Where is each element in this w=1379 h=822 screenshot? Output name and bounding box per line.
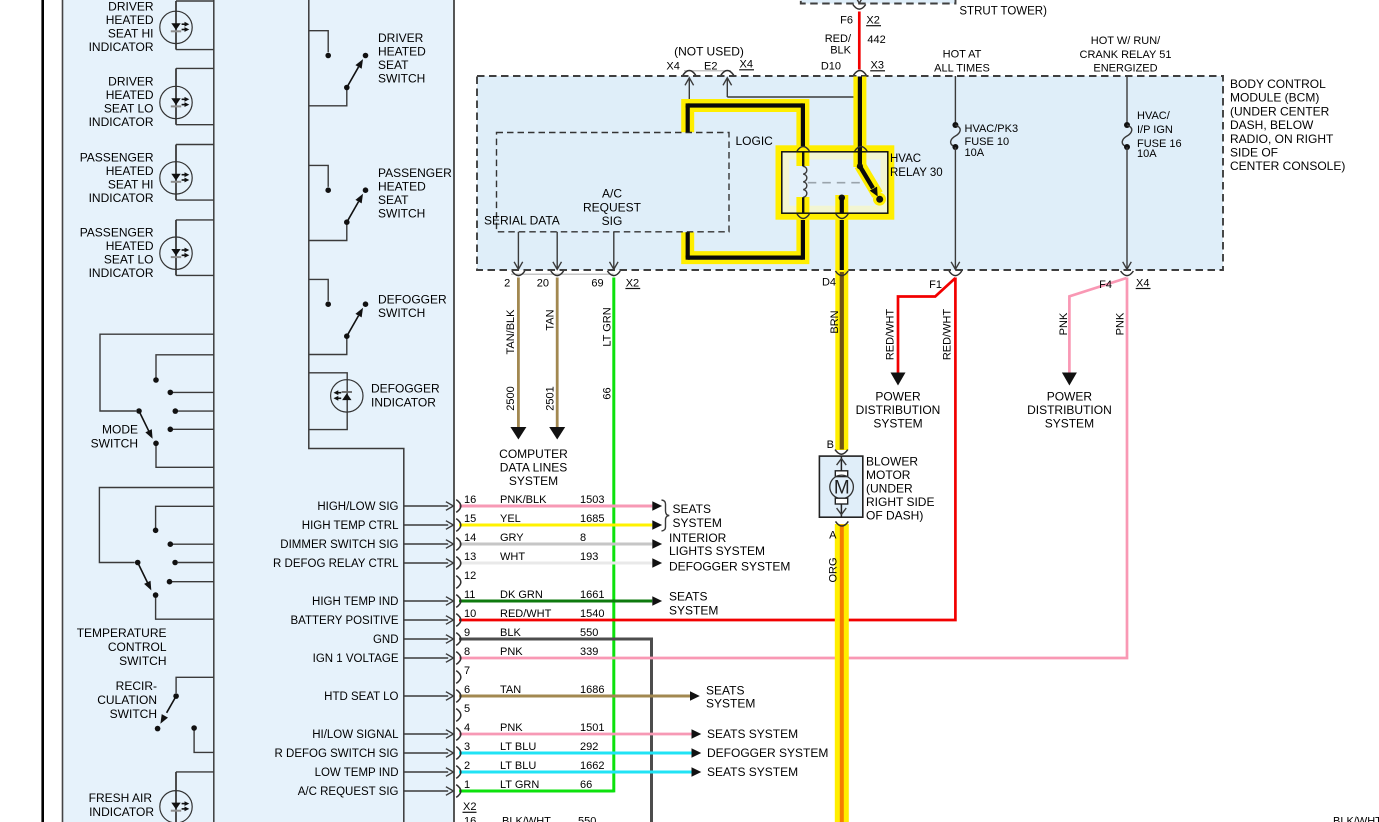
svg-text:DISTRIBUTION: DISTRIBUTION [1027, 403, 1112, 417]
svg-text:DRIVER: DRIVER [108, 75, 154, 89]
svg-text:7: 7 [464, 665, 470, 677]
svg-text:2: 2 [464, 760, 470, 772]
svg-text:16: 16 [464, 494, 476, 506]
svg-text:X2: X2 [866, 15, 879, 27]
svg-text:INDICATOR: INDICATOR [89, 805, 154, 819]
svg-text:HEATED: HEATED [378, 179, 426, 193]
svg-text:PNK/BLK: PNK/BLK [500, 494, 547, 506]
svg-text:SYSTEM: SYSTEM [873, 417, 922, 431]
svg-text:20: 20 [537, 277, 549, 289]
svg-text:DRIVER: DRIVER [108, 0, 154, 14]
svg-text:BODY CONTROL: BODY CONTROL [1230, 77, 1326, 91]
svg-text:D4: D4 [822, 277, 836, 289]
svg-text:INDICATOR: INDICATOR [89, 40, 154, 54]
svg-text:SEAT HI: SEAT HI [108, 27, 154, 41]
svg-text:550: 550 [578, 816, 596, 822]
svg-text:HVAC: HVAC [890, 153, 921, 165]
svg-text:SEAT LO: SEAT LO [104, 102, 154, 116]
svg-text:BLK: BLK [500, 627, 521, 639]
svg-text:A/C REQUEST SIG: A/C REQUEST SIG [298, 786, 399, 798]
svg-text:339: 339 [580, 646, 598, 658]
svg-text:PNK: PNK [1058, 312, 1070, 335]
svg-text:RED/: RED/ [825, 33, 852, 45]
svg-text:SEAT: SEAT [378, 58, 409, 72]
svg-text:SYSTEM: SYSTEM [669, 604, 718, 618]
svg-text:(NOT USED): (NOT USED) [674, 44, 744, 58]
svg-text:E2: E2 [704, 61, 717, 73]
svg-text:CRANK RELAY 51: CRANK RELAY 51 [1080, 49, 1172, 61]
svg-text:HEATED: HEATED [106, 88, 154, 102]
svg-text:69: 69 [591, 277, 603, 289]
svg-text:SWITCH: SWITCH [119, 654, 166, 668]
svg-text:LIGHTS SYSTEM: LIGHTS SYSTEM [669, 544, 765, 558]
svg-text:INDICATOR: INDICATOR [89, 115, 154, 129]
svg-text:PASSENGER: PASSENGER [80, 151, 154, 165]
svg-text:R DEFOG RELAY CTRL: R DEFOG RELAY CTRL [273, 558, 399, 570]
svg-text:RADIO, ON RIGHT: RADIO, ON RIGHT [1230, 132, 1334, 146]
svg-text:STRUT TOWER): STRUT TOWER) [959, 6, 1047, 18]
svg-text:HOT AT: HOT AT [943, 49, 982, 61]
svg-text:BLK: BLK [830, 44, 851, 56]
svg-text:9: 9 [464, 627, 470, 639]
svg-text:POWER: POWER [875, 390, 921, 404]
svg-text:1501: 1501 [580, 722, 604, 734]
svg-text:X2: X2 [626, 277, 639, 289]
svg-text:D10: D10 [821, 61, 841, 73]
svg-text:HIGH TEMP IND: HIGH TEMP IND [312, 596, 398, 608]
svg-text:REQUEST: REQUEST [583, 200, 642, 214]
svg-text:DRIVER: DRIVER [378, 31, 424, 45]
svg-text:GRY: GRY [500, 532, 524, 544]
svg-text:INDICATOR: INDICATOR [89, 266, 154, 280]
svg-text:IGN 1 VOLTAGE: IGN 1 VOLTAGE [313, 653, 399, 665]
svg-text:FRESH AIR: FRESH AIR [89, 791, 153, 805]
svg-text:RED/WHT: RED/WHT [885, 309, 897, 361]
svg-text:TAN/BLK: TAN/BLK [505, 309, 517, 355]
svg-text:HEATED: HEATED [106, 164, 154, 178]
svg-text:B: B [827, 439, 834, 451]
svg-text:DIMMER SWITCH SIG: DIMMER SWITCH SIG [280, 539, 398, 551]
svg-text:2500: 2500 [505, 386, 517, 410]
svg-text:X4: X4 [666, 61, 679, 73]
svg-text:OF DASH): OF DASH) [866, 509, 923, 523]
svg-text:HIGH/LOW SIG: HIGH/LOW SIG [317, 501, 398, 513]
svg-text:66: 66 [601, 387, 613, 399]
svg-text:LT BLU: LT BLU [500, 741, 536, 753]
svg-text:MODE: MODE [102, 423, 138, 437]
svg-text:X3: X3 [871, 60, 884, 72]
svg-text:RECIR-: RECIR- [116, 679, 157, 693]
svg-text:HVAC/PK3: HVAC/PK3 [965, 123, 1019, 135]
svg-text:LOW TEMP IND: LOW TEMP IND [315, 767, 399, 779]
svg-text:MODULE (BCM): MODULE (BCM) [1230, 91, 1319, 105]
svg-text:POWER: POWER [1047, 390, 1093, 404]
svg-text:10A: 10A [1137, 148, 1157, 160]
svg-text:SEAT HI: SEAT HI [108, 178, 154, 192]
svg-text:CENTER CONSOLE): CENTER CONSOLE) [1230, 159, 1345, 173]
svg-text:SYSTEM: SYSTEM [509, 474, 558, 488]
svg-text:SEATS SYSTEM: SEATS SYSTEM [707, 727, 798, 741]
svg-text:SYSTEM: SYSTEM [706, 697, 755, 711]
svg-text:HTD SEAT LO: HTD SEAT LO [324, 691, 398, 703]
svg-text:292: 292 [580, 741, 598, 753]
svg-text:BLK/WHT: BLK/WHT [502, 816, 551, 822]
svg-text:SEATS SYSTEM: SEATS SYSTEM [707, 765, 798, 779]
svg-text:TEMPERATURE: TEMPERATURE [77, 626, 167, 640]
svg-text:CONTROL: CONTROL [108, 640, 167, 654]
svg-text:LT GRN: LT GRN [601, 307, 613, 346]
svg-text:HI/LOW SIGNAL: HI/LOW SIGNAL [312, 729, 399, 741]
svg-text:2: 2 [504, 277, 510, 289]
svg-text:5: 5 [464, 703, 470, 715]
svg-text:SWITCH: SWITCH [378, 306, 425, 320]
svg-text:SYSTEM: SYSTEM [1045, 417, 1094, 431]
svg-text:1: 1 [464, 779, 470, 791]
svg-text:SEATS: SEATS [673, 502, 711, 516]
svg-text:INTERIOR: INTERIOR [669, 531, 727, 545]
svg-text:SWITCH: SWITCH [378, 72, 425, 86]
svg-text:1662: 1662 [580, 760, 604, 772]
svg-text:SIDE OF: SIDE OF [1230, 146, 1278, 160]
svg-text:SWITCH: SWITCH [91, 437, 138, 451]
svg-text:LT BLU: LT BLU [500, 760, 536, 772]
svg-text:DEFOGGER: DEFOGGER [378, 293, 447, 307]
svg-text:A: A [829, 530, 837, 542]
svg-text:(UNDER: (UNDER [866, 482, 913, 496]
svg-text:PASSENGER: PASSENGER [80, 226, 154, 240]
svg-text:12: 12 [464, 570, 476, 582]
svg-text:A/C: A/C [602, 187, 622, 201]
svg-text:HVAC/: HVAC/ [1137, 110, 1171, 122]
svg-text:MOTOR: MOTOR [866, 468, 911, 482]
svg-text:11: 11 [464, 589, 475, 601]
svg-text:TAN: TAN [544, 309, 556, 330]
svg-text:1661: 1661 [580, 589, 604, 601]
svg-text:SEATS: SEATS [669, 590, 707, 604]
svg-text:X4: X4 [1136, 277, 1149, 289]
svg-text:BLK/WHT: BLK/WHT [1333, 816, 1379, 822]
svg-text:DATA LINES: DATA LINES [500, 461, 568, 475]
svg-text:CULATION: CULATION [97, 693, 157, 707]
svg-text:LOGIC: LOGIC [736, 134, 774, 148]
svg-text:DEFOGGER: DEFOGGER [371, 381, 440, 395]
svg-text:16: 16 [464, 816, 476, 822]
svg-text:13: 13 [464, 551, 476, 563]
svg-text:193: 193 [580, 551, 598, 563]
svg-text:(UNDER CENTER: (UNDER CENTER [1230, 104, 1330, 118]
svg-text:F1: F1 [929, 279, 942, 291]
svg-text:RIGHT SIDE: RIGHT SIDE [866, 495, 934, 509]
svg-text:ALL TIMES: ALL TIMES [934, 63, 990, 75]
svg-text:3: 3 [464, 741, 470, 753]
svg-text:1503: 1503 [580, 494, 604, 506]
svg-text:6: 6 [464, 684, 470, 696]
svg-text:4: 4 [464, 722, 470, 734]
svg-text:1685: 1685 [580, 513, 604, 525]
svg-text:ENERGIZED: ENERGIZED [1093, 63, 1157, 75]
svg-text:PNK: PNK [500, 646, 523, 658]
svg-text:WHT: WHT [500, 551, 525, 563]
svg-text:SWITCH: SWITCH [110, 707, 157, 721]
svg-text:442: 442 [867, 34, 885, 46]
svg-text:M: M [834, 478, 850, 499]
svg-text:YEL: YEL [500, 513, 521, 525]
svg-text:F4: F4 [1099, 279, 1112, 291]
svg-text:DASH, BELOW: DASH, BELOW [1230, 118, 1314, 132]
svg-text:SEAT LO: SEAT LO [104, 253, 154, 267]
svg-text:HOT W/ RUN/: HOT W/ RUN/ [1091, 35, 1161, 47]
svg-text:X4: X4 [740, 59, 753, 71]
svg-text:PASSENGER: PASSENGER [378, 166, 452, 180]
svg-text:LT GRN: LT GRN [500, 779, 539, 791]
svg-text:DEFOGGER SYSTEM: DEFOGGER SYSTEM [707, 746, 828, 760]
svg-text:SERIAL DATA: SERIAL DATA [484, 214, 560, 228]
svg-text:X2: X2 [463, 801, 476, 813]
svg-text:COMPUTER: COMPUTER [499, 447, 568, 461]
svg-text:BRN: BRN [829, 310, 841, 333]
svg-text:1686: 1686 [580, 684, 604, 696]
svg-text:PNK: PNK [500, 722, 523, 734]
svg-text:SYSTEM: SYSTEM [673, 516, 722, 530]
svg-text:8: 8 [580, 532, 586, 544]
svg-text:2501: 2501 [544, 386, 556, 410]
svg-text:14: 14 [464, 532, 476, 544]
svg-text:15: 15 [464, 513, 476, 525]
svg-text:550: 550 [580, 627, 598, 639]
svg-text:RED/WHT: RED/WHT [942, 309, 954, 361]
svg-text:HEATED: HEATED [106, 239, 154, 253]
svg-text:BATTERY POSITIVE: BATTERY POSITIVE [290, 615, 398, 627]
svg-text:DEFOGGER SYSTEM: DEFOGGER SYSTEM [669, 560, 790, 574]
svg-text:SIG: SIG [602, 214, 623, 228]
svg-text:DISTRIBUTION: DISTRIBUTION [856, 403, 941, 417]
svg-text:GND: GND [373, 634, 399, 646]
svg-text:SWITCH: SWITCH [378, 206, 425, 220]
svg-text:HEATED: HEATED [378, 45, 426, 59]
svg-text:ORG: ORG [828, 557, 840, 582]
svg-text:PNK: PNK [1115, 312, 1127, 335]
svg-text:RELAY 30: RELAY 30 [890, 167, 943, 179]
svg-text:10: 10 [464, 608, 476, 620]
svg-text:F6: F6 [840, 15, 853, 27]
svg-text:DK GRN: DK GRN [500, 589, 543, 601]
svg-text:SEATS: SEATS [706, 684, 744, 698]
svg-text:8: 8 [464, 646, 470, 658]
svg-text:I/P IGN: I/P IGN [1137, 124, 1173, 136]
svg-text:HEATED: HEATED [106, 13, 154, 27]
svg-text:BLOWER: BLOWER [866, 455, 918, 469]
svg-text:INDICATOR: INDICATOR [371, 396, 436, 410]
svg-text:66: 66 [580, 779, 592, 791]
svg-text:SEAT: SEAT [378, 193, 409, 207]
svg-text:INDICATOR: INDICATOR [89, 191, 154, 205]
svg-text:RED/WHT: RED/WHT [500, 608, 552, 620]
svg-text:HIGH TEMP CTRL: HIGH TEMP CTRL [302, 520, 399, 532]
svg-text:10A: 10A [965, 147, 985, 159]
svg-text:R DEFOG SWITCH SIG: R DEFOG SWITCH SIG [275, 748, 399, 760]
svg-text:1540: 1540 [580, 608, 604, 620]
svg-text:TAN: TAN [500, 684, 521, 696]
